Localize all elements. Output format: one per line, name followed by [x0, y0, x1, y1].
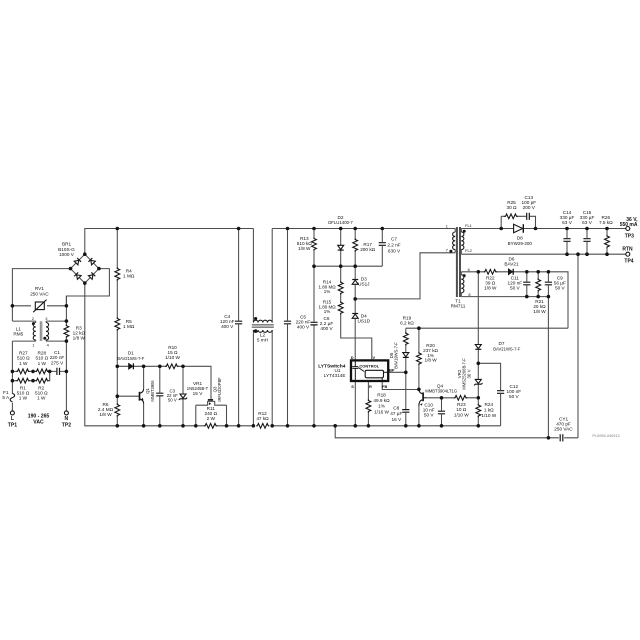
- svg-text:CONTROL: CONTROL: [359, 364, 379, 369]
- svg-text:15 V: 15 V: [193, 391, 204, 396]
- label drawing number: [592, 434, 619, 438]
- svg-text:TP3: TP3: [625, 233, 634, 239]
- resistor R20: [416, 343, 439, 365]
- svg-text:1/8 W: 1/8 W: [99, 412, 112, 417]
- wire: B+ top rail right segment (L2 to T1 pin 1): [272, 228, 455, 230]
- svg-text:1/10 W: 1/10 W: [165, 355, 180, 360]
- wire: input resistor rows and C1 row: [12, 371, 66, 380]
- svg-text:FL2: FL2: [465, 248, 472, 253]
- svg-text:63 V: 63 V: [562, 220, 573, 225]
- svg-text:6: 6: [468, 267, 470, 272]
- svg-text:R23: R23: [457, 402, 466, 407]
- wire: L2 top winding drops: [253, 229, 272, 323]
- svg-text:400 V: 400 V: [320, 326, 333, 331]
- wire: C12 branch: [478, 363, 500, 426]
- svg-text:RTN: RTN: [622, 247, 633, 253]
- svg-text:200 V: 200 V: [523, 205, 536, 210]
- terminal TP3 output: [620, 217, 638, 240]
- capacitor C6: [310, 316, 333, 331]
- svg-text:190 - 265: 190 - 265: [28, 414, 50, 420]
- wire: R19/D5/C8 branch: [405, 328, 407, 426]
- wire: R20 branch: [418, 328, 420, 389]
- svg-text:BAV19WS-7-F: BAV19WS-7-F: [393, 342, 398, 369]
- svg-text:S: S: [351, 384, 354, 389]
- resistor R5: [114, 317, 135, 330]
- svg-text:RV1: RV1: [35, 286, 44, 291]
- svg-text:1/10 W: 1/10 W: [454, 413, 469, 418]
- varistor RV1: [30, 286, 49, 312]
- svg-text:TP1: TP1: [8, 422, 18, 428]
- svg-text:2: 2: [32, 316, 34, 321]
- svg-text:1/8 W: 1/8 W: [484, 286, 497, 291]
- wire: R26 branch: [606, 229, 608, 255]
- node: input network junctions: [11, 304, 69, 383]
- resistor R14: [318, 280, 343, 295]
- wire: RV1 row: [12, 305, 66, 307]
- wire: primary ground to CY1 line: [335, 426, 578, 438]
- svg-text:DFLU1400-7: DFLU1400-7: [328, 220, 353, 225]
- svg-text:47 µF: 47 µF: [390, 411, 402, 416]
- fuse F1: [2, 390, 15, 403]
- wire: C10 branch: [441, 398, 443, 426]
- resistor R17: [352, 238, 376, 252]
- svg-text:LYTSwitch4: LYTSwitch4: [318, 363, 346, 369]
- diode D8: [508, 224, 533, 246]
- diode D3: [352, 277, 369, 287]
- resistor R28: [35, 351, 48, 375]
- svg-text:1 W: 1 W: [19, 396, 28, 401]
- svg-text:US1D: US1D: [358, 318, 371, 323]
- choke L2: [252, 317, 274, 343]
- resistor R10: [165, 345, 180, 369]
- wire: primary return bottom rail right segment: [273, 425, 501, 427]
- svg-text:50 V: 50 V: [424, 412, 435, 417]
- svg-text:C7: C7: [391, 237, 397, 242]
- wire: C3 branch: [159, 366, 161, 426]
- svg-text:50 V: 50 V: [509, 394, 520, 399]
- svg-text:5 mH: 5 mH: [257, 338, 268, 343]
- resistor R23: [454, 395, 469, 418]
- svg-text:FB: FB: [382, 384, 387, 389]
- capacitor C1: [50, 350, 65, 375]
- wire: L2 bottom winding drops: [253, 330, 272, 426]
- svg-text:D: D: [351, 355, 354, 360]
- svg-text:1: 1: [446, 223, 448, 228]
- resistor R2: [35, 378, 49, 401]
- svg-text:250 VAC: 250 VAC: [554, 427, 573, 432]
- wire: D8 snubber loop: [501, 216, 535, 228]
- wire: C7 branch: [381, 229, 383, 267]
- diode D4: [352, 313, 370, 323]
- svg-text:30 V: 30 V: [466, 369, 471, 378]
- wire: aux pin6 row to bias rail return: [461, 272, 568, 328]
- svg-text:BAV21: BAV21: [504, 261, 519, 266]
- wire: Q1 collector/emitter column: [143, 366, 145, 426]
- capacitor C13: [522, 195, 537, 220]
- resistor R27: [16, 351, 30, 375]
- svg-text:200 kΩ: 200 kΩ: [360, 247, 375, 252]
- svg-text:8: 8: [468, 292, 470, 297]
- resistor R21: [533, 278, 546, 314]
- op-amp U1 LYTSwitch-4 controller: [318, 355, 395, 389]
- svg-text:F1: F1: [3, 390, 9, 395]
- resistor R15: [318, 300, 343, 315]
- svg-text:47 kΩ: 47 kΩ: [256, 416, 269, 421]
- wire: L1 pin4 row: [46, 340, 66, 342]
- capacitor C5: [284, 314, 311, 329]
- svg-text:BR1: BR1: [62, 241, 72, 246]
- transistor Q1: [140, 380, 155, 404]
- wire: D2 branch: [340, 229, 342, 267]
- diode D7: [475, 341, 521, 351]
- common-mode choke L1: [13, 316, 49, 348]
- transistor Q4: [419, 383, 457, 406]
- svg-text:D8: D8: [517, 236, 523, 241]
- diode D2: [328, 215, 353, 250]
- wire: C11 branch: [526, 272, 528, 297]
- wire: Q4 base row through R23: [427, 397, 478, 399]
- wire: bridge AC2 jog to neutral node: [66, 269, 109, 306]
- wire: Q3 bypass box around R11: [196, 401, 227, 425]
- resistor R26: [599, 215, 613, 248]
- wire: U1 S pin to ground: [354, 381, 356, 426]
- resistor R6: [98, 402, 121, 417]
- svg-text:R24: R24: [484, 402, 493, 407]
- svg-text:MMBT3904LT1G: MMBT3904LT1G: [425, 389, 457, 394]
- svg-text:2 W: 2 W: [207, 416, 216, 421]
- resistor R18: [365, 393, 390, 415]
- diode D1: [117, 351, 145, 370]
- wire: Q1 base lead: [117, 395, 139, 397]
- wire: RTN rail FL2 to TP4: [461, 253, 626, 255]
- zener VR1: [179, 381, 209, 400]
- svg-text:63 V: 63 V: [582, 220, 593, 225]
- capacitor C12: [497, 384, 522, 399]
- terminal L / TP1: [8, 411, 18, 428]
- svg-text:1%: 1%: [324, 309, 331, 314]
- capacitor C11: [508, 276, 531, 291]
- svg-text:1/10 W: 1/10 W: [481, 413, 496, 418]
- svg-text:1 W: 1 W: [38, 361, 47, 366]
- svg-text:1 MΩ: 1 MΩ: [123, 324, 135, 329]
- node: bias and feedback junctions: [404, 270, 480, 400]
- capacitor C4: [220, 314, 243, 329]
- svg-text:BAV21WS-7-F: BAV21WS-7-F: [117, 356, 145, 361]
- terminal TP4 return: [622, 247, 633, 265]
- svg-text:1%: 1%: [378, 404, 385, 409]
- svg-text:L: L: [11, 416, 14, 422]
- bridge rectifier BR1: [58, 241, 101, 285]
- resistor R3: [63, 325, 85, 341]
- wire: R6 column: [116, 366, 118, 426]
- svg-text:7: 7: [446, 248, 448, 253]
- wire: drain node to T1 pin 7: [355, 253, 455, 299]
- svg-text:30 Ω: 30 Ω: [506, 205, 517, 210]
- capacitor C8: [390, 405, 410, 421]
- diode D5: [389, 342, 409, 369]
- svg-text:1/8 W: 1/8 W: [424, 358, 437, 363]
- wire: D3/D4 clamp to drain pin: [354, 266, 356, 360]
- svg-text:49.9 kΩ: 49.9 kΩ: [373, 398, 390, 403]
- svg-text:400 V: 400 V: [297, 324, 310, 329]
- diode D6: [504, 256, 519, 275]
- svg-text:1 kΩ: 1 kΩ: [484, 408, 494, 413]
- capacitor CY1: [554, 417, 573, 442]
- svg-text:R: R: [369, 384, 372, 389]
- capacitor C9: [544, 276, 566, 291]
- wire: C15 branch: [586, 229, 588, 255]
- node: RTN rail junctions: [565, 252, 609, 256]
- node: output rail junctions: [499, 227, 608, 231]
- svg-text:US1J: US1J: [358, 282, 369, 287]
- svg-text:L1: L1: [16, 326, 22, 331]
- wire: U1 FB pin to Q4 collector: [382, 381, 419, 390]
- svg-text:RM711: RM711: [451, 304, 466, 309]
- node: gate drive row junctions: [116, 365, 185, 399]
- svg-text:N: N: [65, 416, 69, 422]
- wire: R21 branch: [537, 272, 539, 297]
- label input voltage range: [28, 414, 50, 426]
- svg-text:1000 V: 1000 V: [59, 252, 75, 257]
- svg-text:RM5: RM5: [13, 332, 23, 337]
- capacitor C15: [580, 210, 595, 242]
- svg-text:1/8 W: 1/8 W: [298, 246, 311, 251]
- resistor R1: [16, 378, 29, 401]
- capacitor C3: [156, 388, 178, 402]
- resistor R19: [400, 316, 414, 346]
- wire: C14 branch: [566, 229, 568, 255]
- wire: clamp node line: [314, 265, 382, 267]
- wire: C9 branch / aux return to ground: [547, 272, 549, 438]
- svg-text:16 V: 16 V: [391, 417, 402, 422]
- svg-text:PI-6953-040913: PI-6953-040913: [592, 434, 619, 438]
- svg-text:630 V: 630 V: [388, 248, 401, 253]
- svg-text:1/16 W: 1/16 W: [374, 409, 389, 414]
- zener VR2: [457, 358, 483, 390]
- svg-text:MMBT3906: MMBT3906: [150, 380, 155, 402]
- node: clamp node junctions: [312, 264, 357, 300]
- svg-text:3: 3: [45, 316, 47, 321]
- svg-text:LYT4314E: LYT4314E: [324, 373, 346, 378]
- svg-text:FL1: FL1: [465, 223, 472, 228]
- svg-text:7.5 kΩ: 7.5 kΩ: [599, 220, 613, 225]
- svg-text:TP2: TP2: [62, 422, 72, 428]
- svg-text:10 Ω: 10 Ω: [456, 407, 467, 412]
- wire: output rail FL1 to TP3: [461, 228, 626, 230]
- wire: L1 pin3 row: [46, 320, 66, 322]
- capacitor C14: [560, 210, 575, 242]
- wire: R13/C6 branch: [313, 229, 315, 426]
- wire: U1 BP pin lead: [388, 371, 406, 373]
- resistor R11: [204, 406, 218, 429]
- svg-text:V: V: [372, 355, 375, 360]
- svg-text:1 MΩ: 1 MΩ: [123, 274, 135, 279]
- wire: L1 pin2 row: [12, 306, 35, 321]
- svg-text:B10S-G: B10S-G: [58, 247, 75, 252]
- resistor R13: [297, 236, 317, 251]
- terminal N / TP2: [62, 411, 72, 428]
- capacitor C7: [378, 237, 401, 254]
- mosfet Q3: [208, 377, 222, 405]
- wire: bias rail: [406, 327, 568, 329]
- svg-text:50 V: 50 V: [168, 398, 177, 403]
- svg-text:275 V: 275 V: [51, 360, 64, 365]
- wire: aux pin6 sense column (D7/VR2/R24): [477, 272, 479, 426]
- svg-text:BYW29-200: BYW29-200: [508, 241, 533, 246]
- wire: R17 branch: [354, 229, 356, 267]
- svg-text:R18: R18: [377, 393, 386, 398]
- svg-text:1/8 W: 1/8 W: [533, 309, 546, 314]
- svg-text:1%: 1%: [324, 289, 331, 294]
- svg-text:550 mA: 550 mA: [620, 222, 638, 228]
- wire: Q4 emitter drop: [418, 406, 420, 426]
- svg-text:6.2 kΩ: 6.2 kΩ: [400, 321, 414, 326]
- wire: aux pin8 row: [461, 296, 548, 298]
- svg-text:1/8 W: 1/8 W: [73, 336, 86, 341]
- resistor R22: [484, 269, 497, 291]
- wire: D1/R10 row to Q3 gate: [117, 366, 211, 399]
- transformer T1: [446, 223, 472, 308]
- svg-text:2.2 nF: 2.2 nF: [387, 243, 400, 248]
- resistor R25: [504, 200, 517, 220]
- wire: R4/R5 sense column: [116, 229, 118, 367]
- wire: C5 branch: [287, 229, 289, 426]
- wire: B+ top rail left segment (bridge + to L2): [85, 229, 254, 255]
- resistor R4: [114, 267, 135, 280]
- wire: bridge AC1 to line input: [12, 269, 70, 306]
- wire: neutral column (R3/C1/N): [65, 296, 67, 411]
- resistor R12: [256, 411, 269, 429]
- node: aux winding junctions: [525, 270, 550, 440]
- svg-text:400 V: 400 V: [221, 324, 234, 329]
- wire: T1 primary stubs: [454, 229, 456, 253]
- svg-text:TP4: TP4: [624, 259, 633, 265]
- wire: T1 aux stubs: [460, 272, 462, 297]
- svg-text:50 V: 50 V: [510, 286, 521, 291]
- wire: R14/R15 line-sense to V pin: [341, 266, 372, 360]
- svg-text:1 W: 1 W: [37, 396, 46, 401]
- wire: RTN drop to CY1: [577, 254, 579, 438]
- wire: VR1 branch: [182, 366, 184, 426]
- svg-text:L2: L2: [260, 332, 266, 337]
- svg-text:BAV21WS-7-F: BAV21WS-7-F: [493, 346, 521, 351]
- node: ground rail junctions: [116, 424, 481, 428]
- wire: U1 R pin through R18: [367, 381, 369, 426]
- wire: T1 secondary stubs: [460, 229, 462, 255]
- svg-text:1 W: 1 W: [19, 361, 28, 366]
- wire: fuse to L terminal: [11, 402, 13, 411]
- svg-text:50 V: 50 V: [555, 286, 566, 291]
- wire: primary return bottom rail left segment: [85, 283, 253, 426]
- svg-text:VAC: VAC: [33, 420, 44, 426]
- wire: L1 pin1 row and fuse column: [12, 341, 35, 402]
- node: B+ rail junctions: [116, 227, 385, 231]
- svg-text:5 A: 5 A: [2, 395, 10, 400]
- svg-text:IRFU320PBF: IRFU320PBF: [217, 377, 222, 402]
- svg-text:C8: C8: [393, 405, 399, 410]
- capacitor C10: [423, 403, 446, 418]
- wire: C4 branch: [238, 229, 240, 426]
- svg-text:250 VAC: 250 VAC: [30, 292, 49, 297]
- svg-text:1: 1: [32, 343, 34, 348]
- resistor R24: [475, 402, 497, 418]
